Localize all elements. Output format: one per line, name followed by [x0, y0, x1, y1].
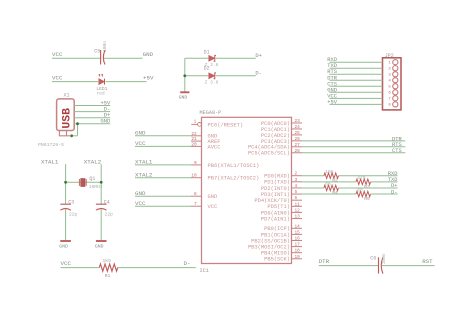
- connector X1 USB body: [57, 99, 75, 131]
- svg-text:VCC: VCC: [135, 140, 146, 147]
- wire C4 to gnd: [100, 209, 102, 240]
- capacitor C5: [100, 50, 102, 65]
- resistor R1: [99, 264, 117, 271]
- wire RXD to JP2 pin 1: [330, 61, 383, 63]
- wire TXD to JP2 pin 2: [330, 67, 383, 69]
- svg-text:GND: GND: [100, 119, 110, 125]
- wire DTR to JP2 pin 4: [330, 79, 383, 81]
- wire GND to JP2 pin 6: [330, 91, 383, 93]
- wire pin 2 to resistor: [302, 175, 324, 177]
- pin 8 stub: [191, 195, 202, 197]
- svg-text:D+: D+: [255, 53, 261, 59]
- svg-text:R1: R1: [105, 273, 111, 279]
- svg-text:17: 17: [295, 243, 301, 248]
- pin 19 stub: [292, 258, 303, 260]
- wire X1 pin to +5V: [74, 105, 110, 107]
- svg-text:1: 1: [194, 120, 197, 125]
- pin 3 stub: [292, 181, 303, 183]
- ground below diodes: [180, 91, 189, 93]
- wire resistor to TXD: [371, 181, 398, 183]
- wire CTS to JP2 pin 5: [330, 85, 383, 87]
- USB shield stub: [59, 131, 71, 136]
- svg-text:AVCC: AVCC: [208, 144, 221, 150]
- svg-text:D-: D-: [104, 107, 110, 113]
- pin 1 stub PC6/RESET: [191, 123, 197, 125]
- wire xtal1 vertical: [65, 164, 67, 204]
- svg-text:PB0(ICP): PB0(ICP): [264, 226, 290, 232]
- JP2 pad 7: [393, 96, 398, 101]
- wire XTAL2 to pin 10: [135, 177, 192, 179]
- svg-text:PB4(MISO): PB4(MISO): [261, 251, 290, 257]
- svg-text:GND: GND: [143, 51, 154, 58]
- svg-text:D1: D1: [204, 49, 210, 55]
- resistor R4: [324, 185, 339, 190]
- svg-text:GND: GND: [208, 194, 218, 200]
- wire xtal2 vertical: [100, 164, 102, 204]
- JP2 pad 8: [393, 102, 398, 107]
- svg-text:13: 13: [295, 215, 301, 220]
- wire VCC to pin 7: [135, 205, 192, 207]
- svg-text:22p: 22p: [105, 211, 114, 217]
- wire C3 to gnd: [65, 209, 67, 240]
- svg-text:3: 3: [295, 178, 298, 183]
- svg-text:26: 26: [295, 137, 301, 142]
- diode D2 zener 3.6V: [209, 73, 215, 79]
- resistor R2: [324, 173, 339, 178]
- wire GND to pin 22: [135, 135, 192, 137]
- diode D1 zener 3.6V: [209, 55, 215, 61]
- wire XTAL1 to pin 9: [135, 164, 192, 166]
- wire pin 28 to CTS: [302, 152, 406, 154]
- svg-text:D-: D-: [184, 260, 191, 267]
- svg-text:16MHz: 16MHz: [89, 184, 103, 190]
- svg-text:PB6(XTAL1/TOSC1): PB6(XTAL1/TOSC1): [208, 163, 260, 169]
- wire D1 to D+ label: [216, 57, 256, 59]
- svg-text:D-: D-: [255, 71, 261, 77]
- svg-text:VCC: VCC: [208, 204, 218, 210]
- JP2 pad 2: [393, 66, 398, 71]
- svg-text:DTR: DTR: [319, 258, 330, 265]
- svg-text:C3: C3: [68, 199, 74, 205]
- wire pin 4 to resistor: [302, 187, 324, 189]
- wire resistor to D+: [339, 187, 398, 189]
- junction at USB GND pin: [76, 122, 79, 125]
- svg-text:7: 7: [194, 202, 197, 207]
- svg-text:GND: GND: [135, 190, 146, 197]
- svg-text:19: 19: [295, 255, 301, 260]
- capacitor C4: [96, 203, 107, 205]
- svg-text:PD3(INT1): PD3(INT1): [261, 192, 290, 198]
- svg-text:20: 20: [191, 142, 197, 147]
- wire RTS to JP2 pin 3: [330, 73, 383, 75]
- svg-text:VCC: VCC: [52, 51, 63, 58]
- svg-text:GND: GND: [135, 129, 146, 136]
- svg-text:100n: 100n: [381, 253, 387, 264]
- svg-text:GND: GND: [179, 95, 188, 101]
- JP2 pad 3: [393, 72, 398, 77]
- svg-text:10K: 10K: [325, 169, 334, 175]
- resistor R3: [356, 179, 371, 184]
- svg-text:PD2(INT0): PD2(INT0): [261, 186, 290, 192]
- svg-text:C6: C6: [370, 256, 376, 262]
- JP2 pad 5: [393, 84, 398, 89]
- pin 6 stub: [292, 199, 303, 201]
- pin 16 stub: [292, 240, 303, 242]
- svg-text:22p: 22p: [69, 211, 78, 217]
- pin 28 stub: [292, 152, 303, 154]
- wire +5V to JP2 pin 8: [330, 103, 383, 105]
- svg-text:PD1(TXD): PD1(TXD): [264, 180, 290, 186]
- svg-text:PN61729-S: PN61729-S: [38, 142, 64, 148]
- svg-text:PB7(XTAL2/TOSC2): PB7(XTAL2/TOSC2): [208, 176, 260, 182]
- pin 15 stub: [292, 233, 303, 235]
- wire pin 5 to resistor: [302, 193, 357, 195]
- svg-text:USB: USB: [62, 108, 74, 129]
- ground below C4: [96, 240, 107, 242]
- svg-text:5: 5: [295, 190, 298, 195]
- pin 5 stub: [292, 193, 303, 195]
- svg-text:XTAL2: XTAL2: [84, 158, 102, 165]
- wire GND pin down (shield): [77, 124, 79, 136]
- svg-text:PC6(/RESET): PC6(/RESET): [208, 122, 244, 128]
- wire pin 26 to DTR: [302, 140, 406, 142]
- wire pin 27 to RTS: [302, 146, 406, 148]
- pin 4 stub: [292, 187, 303, 189]
- svg-text:IC1: IC1: [200, 268, 209, 274]
- svg-text:PB5(SCK): PB5(SCK): [264, 257, 290, 263]
- pin 22 stub: [191, 135, 202, 137]
- wire crystal horizontal: [66, 181, 102, 183]
- svg-text:+5V: +5V: [143, 75, 154, 82]
- wire X1 pin to D+: [74, 117, 110, 119]
- junction xtal2/crystal: [100, 181, 103, 184]
- JP2 pad 4: [393, 78, 398, 83]
- svg-text:68: 68: [357, 187, 363, 193]
- svg-text:9: 9: [194, 161, 197, 166]
- svg-text:28: 28: [295, 149, 301, 154]
- wire X1 pin to GND: [74, 123, 110, 125]
- LED LED1: [99, 79, 105, 85]
- svg-text:4: 4: [295, 184, 298, 189]
- svg-text:PC5(ADC5/SCL): PC5(ADC5/SCL): [248, 151, 290, 157]
- svg-text:D2: D2: [204, 66, 210, 72]
- pin 25 stub: [292, 134, 303, 136]
- svg-text:8: 8: [194, 192, 197, 197]
- svg-text:MEGA8-P: MEGA8-P: [200, 110, 222, 116]
- svg-text:GND: GND: [95, 244, 104, 250]
- svg-text:PD4(XCK/T0): PD4(XCK/T0): [254, 198, 290, 204]
- svg-text:470: 470: [357, 175, 366, 181]
- svg-text:C5: C5: [94, 49, 100, 55]
- pin 11 stub: [292, 205, 303, 207]
- svg-text:22: 22: [191, 132, 197, 137]
- pin 24 stub: [292, 128, 303, 130]
- svg-text:VCC: VCC: [135, 200, 146, 207]
- pin 9 stub: [191, 164, 202, 166]
- pin 14 stub: [292, 227, 303, 229]
- svg-text:PD5(T1): PD5(T1): [267, 204, 290, 210]
- pin 10 stub: [191, 177, 202, 179]
- wire VCC to JP2 pin 7: [330, 97, 383, 99]
- svg-text:XTAL2: XTAL2: [135, 171, 153, 178]
- svg-text:12: 12: [295, 208, 301, 213]
- svg-text:68: 68: [325, 181, 331, 187]
- svg-text:PD0(RXD): PD0(RXD): [264, 174, 290, 180]
- pin 27 stub: [292, 146, 303, 148]
- svg-text:27: 27: [295, 143, 301, 148]
- svg-text:24: 24: [295, 125, 301, 130]
- svg-text:6: 6: [295, 196, 298, 201]
- wire resistor to RXD: [339, 175, 398, 177]
- svg-text:GND: GND: [59, 244, 68, 250]
- svg-text:PB2(SS/OC1B): PB2(SS/OC1B): [251, 238, 290, 244]
- svg-text:R2: R2: [332, 178, 338, 184]
- wire C5 to GND: [104, 57, 143, 59]
- junction diode rows: [183, 74, 186, 77]
- svg-text:VCC: VCC: [52, 75, 63, 82]
- pin 12 stub: [292, 211, 303, 213]
- wire C6 to RST: [382, 265, 435, 267]
- svg-text:14: 14: [295, 224, 301, 229]
- svg-text:15: 15: [295, 230, 301, 235]
- svg-text:D+: D+: [391, 183, 397, 189]
- svg-text:XTAL1: XTAL1: [135, 159, 153, 166]
- svg-text:11: 11: [295, 202, 301, 207]
- svg-text:+5V: +5V: [100, 101, 110, 107]
- svg-text:21: 21: [191, 137, 197, 142]
- pin 17 stub: [292, 246, 303, 248]
- wire pin 3 to resistor: [302, 181, 357, 183]
- pin 21 stub: [191, 140, 202, 142]
- capacitor C3: [60, 203, 71, 205]
- pin 13 stub: [292, 218, 303, 220]
- capacitor C6: [378, 257, 380, 273]
- svg-text:RXD: RXD: [388, 171, 398, 177]
- wire resistor to D-: [371, 193, 398, 195]
- wire VCC to pin 20: [135, 145, 192, 147]
- pin 23 stub: [292, 122, 303, 124]
- svg-text:R3: R3: [364, 184, 370, 190]
- JP2 pad 6: [393, 90, 398, 95]
- svg-text:25: 25: [295, 131, 301, 136]
- JP2 pad 1: [393, 60, 398, 65]
- svg-text:C4: C4: [104, 199, 110, 205]
- svg-text:18: 18: [295, 249, 301, 254]
- svg-text:PB1(OC1A): PB1(OC1A): [261, 232, 290, 238]
- svg-text:23: 23: [295, 119, 301, 124]
- junction xtal1/crystal: [64, 181, 67, 184]
- svg-text:16: 16: [295, 237, 301, 242]
- svg-text:2: 2: [295, 172, 298, 177]
- wire D- row (GND to D2): [185, 75, 209, 77]
- connector JP2 body: [383, 58, 402, 110]
- crystal Q1: [81, 179, 85, 187]
- svg-text:R4: R4: [332, 190, 338, 196]
- pin 20 stub: [191, 145, 202, 147]
- svg-text:PD6(AIN0): PD6(AIN0): [261, 210, 290, 216]
- svg-text:RST: RST: [422, 258, 433, 265]
- svg-text:X1: X1: [64, 92, 70, 98]
- svg-text:TXD: TXD: [388, 177, 398, 183]
- svg-text:XTAL1: XTAL1: [41, 158, 59, 165]
- resistor R5: [356, 191, 371, 196]
- svg-text:100n: 100n: [102, 41, 108, 52]
- wire LED1 to +5V: [106, 81, 147, 83]
- pin 7 stub: [191, 205, 202, 207]
- pin 2 stub: [292, 175, 303, 177]
- svg-text:Q1: Q1: [89, 176, 95, 182]
- op-amp IC1 MEGA8-P box: [202, 117, 292, 263]
- svg-text:R5: R5: [364, 196, 370, 202]
- svg-text:D-: D-: [391, 189, 397, 195]
- pin 26 stub: [292, 140, 303, 142]
- svg-text:1K5: 1K5: [102, 258, 111, 264]
- wire VCC to R1: [61, 267, 100, 269]
- wire D2 to D- label: [216, 75, 256, 77]
- wire D+ row (GND to D1): [185, 57, 209, 59]
- svg-text:PB3(MOSI/OC2): PB3(MOSI/OC2): [248, 245, 290, 251]
- wire DTR to C6: [319, 265, 378, 267]
- svg-text:VCC: VCC: [61, 260, 72, 267]
- svg-text:10: 10: [191, 174, 197, 179]
- wire X1 pin to D-: [74, 111, 110, 113]
- svg-text:+5V: +5V: [327, 99, 337, 105]
- wire R1 to D-: [118, 267, 196, 269]
- svg-text:red: red: [96, 90, 105, 96]
- wire GND to pin 8: [135, 195, 192, 197]
- ground below C3: [60, 240, 71, 242]
- junction at USB shield: [70, 134, 73, 137]
- pin 18 stub: [292, 252, 303, 254]
- svg-text:Z 3.6: Z 3.6: [205, 80, 219, 86]
- wire VCC to LED1: [52, 81, 98, 83]
- svg-text:PD7(AIN1): PD7(AIN1): [261, 216, 290, 222]
- svg-text:CTS: CTS: [392, 148, 402, 154]
- wire VCC to C5: [52, 57, 100, 59]
- wire diode gnd vertical: [184, 58, 186, 91]
